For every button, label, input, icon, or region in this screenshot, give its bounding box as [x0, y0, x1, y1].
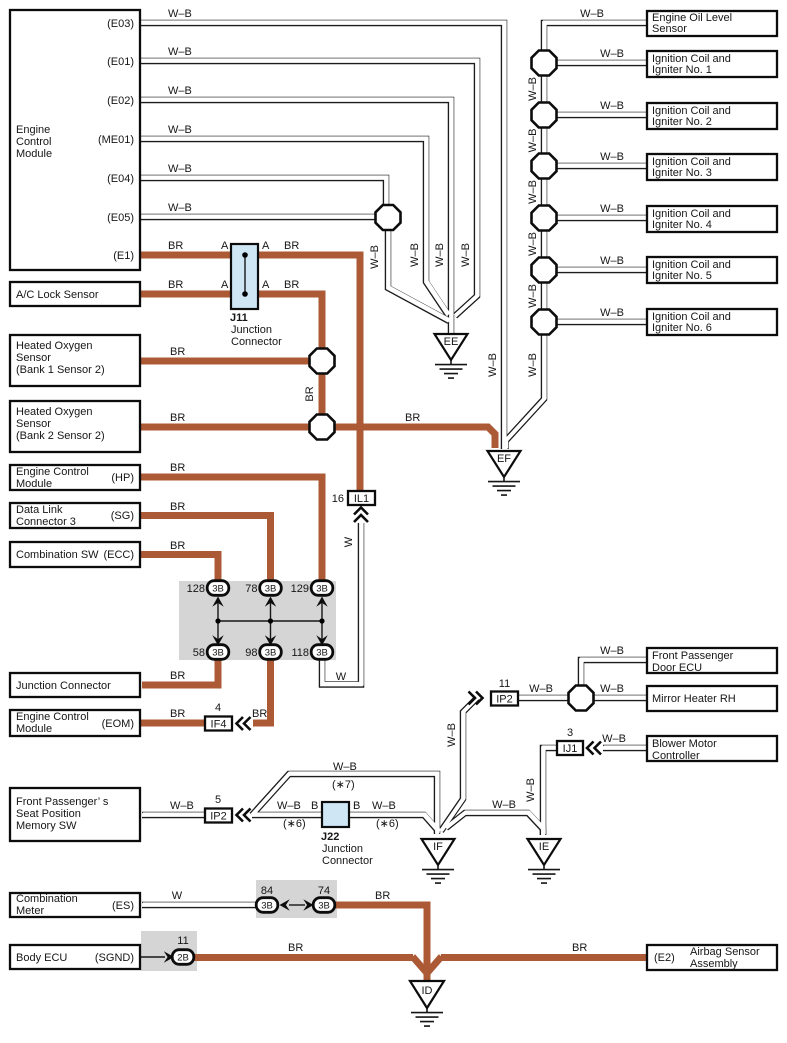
connector octagon oxygen bank1 [310, 349, 335, 374]
wire BR octagon to octagon link [319, 361, 326, 427]
svg-text:Seat Position: Seat Position [16, 808, 81, 820]
splice oval 74/3B [313, 898, 335, 913]
component box engine control module HP [10, 465, 140, 490]
svg-text:(E01): (E01) [107, 56, 134, 68]
shade box splice 2B [141, 931, 197, 971]
svg-text:BR: BR [288, 942, 303, 954]
svg-text:W–B: W–B [527, 284, 539, 308]
splice oval 84/3B [256, 898, 278, 913]
svg-text:W–B: W–B [600, 645, 624, 657]
svg-text:BR: BR [168, 240, 183, 252]
component box data link connector 3 [10, 503, 140, 528]
svg-text:3B: 3B [265, 648, 277, 659]
component box front passenger seat position memory SW [10, 788, 140, 841]
connector octagon chain no.6 [532, 310, 557, 335]
svg-text:W–B: W–B [600, 151, 624, 163]
svg-text:IJ1: IJ1 [563, 743, 578, 755]
svg-text:Control: Control [16, 136, 51, 148]
junction connector J22 [322, 802, 349, 827]
chevrons below IL1 [354, 508, 368, 523]
svg-text:W–B: W–B [527, 129, 539, 153]
svg-text:Igniter No. 5: Igniter No. 5 [652, 270, 712, 282]
svg-text:Memory SW: Memory SW [16, 820, 77, 832]
svg-text:BR: BR [170, 501, 185, 513]
svg-text:78: 78 [245, 583, 257, 595]
svg-text:(E03): (E03) [107, 18, 134, 30]
svg-text:Meter: Meter [16, 905, 44, 917]
component box combination meter [10, 893, 140, 917]
svg-text:ID: ID [422, 985, 433, 997]
svg-text:W–B: W–B [525, 778, 537, 802]
svg-text:W–B: W–B [600, 307, 624, 319]
connector octagon chain no.5 [532, 258, 557, 283]
svg-text:(∗7): (∗7) [332, 779, 355, 791]
connector octagon E04/E05 [376, 205, 401, 230]
svg-text:BR: BR [170, 708, 185, 720]
svg-text:Connector: Connector [322, 855, 373, 867]
body ECU feed arrow [140, 956, 165, 958]
component box ignition coil no.5 [647, 257, 777, 283]
svg-text:16: 16 [332, 493, 344, 505]
svg-text:W–B: W–B [168, 202, 192, 214]
svg-text:(Bank 2 Sensor 2): (Bank 2 Sensor 2) [16, 430, 105, 442]
svg-text:(E1): (E1) [113, 250, 134, 262]
svg-text:W–B: W–B [487, 353, 499, 377]
svg-text:84: 84 [261, 885, 273, 897]
svg-text:(Bank 1 Sensor 2): (Bank 1 Sensor 2) [16, 364, 105, 376]
connector octagon door ECU / mirror heater [569, 686, 594, 711]
svg-text:EE: EE [444, 336, 459, 348]
svg-text:W–B: W–B [529, 683, 553, 695]
wire BR heated oxygen sensor bank1 to octagon [140, 358, 322, 365]
svg-text:W–B: W–B [369, 245, 381, 269]
svg-text:BR: BR [375, 890, 390, 902]
svg-text:W–B: W–B [168, 124, 192, 136]
svg-text:W–B: W–B [527, 353, 539, 377]
svg-text:W–B: W–B [168, 163, 192, 175]
svg-text:J11: J11 [230, 312, 248, 324]
svg-text:74: 74 [318, 885, 330, 897]
svg-text:58: 58 [193, 647, 205, 659]
svg-text:A: A [262, 240, 270, 252]
svg-text:BR: BR [170, 670, 185, 682]
svg-text:BR: BR [170, 412, 185, 424]
splice bus line with arrows [212, 597, 327, 646]
component box blower motor controller [647, 736, 777, 761]
component box engine control module [10, 10, 140, 270]
svg-text:W–B: W–B [600, 255, 624, 267]
svg-text:3B: 3B [212, 648, 224, 659]
ground EE [435, 334, 468, 378]
svg-text:IP2: IP2 [210, 811, 227, 823]
connector box IP2 pin 11 [491, 692, 518, 706]
svg-text:Assembly: Assembly [690, 958, 738, 970]
svg-text:A: A [221, 240, 229, 252]
svg-text:W–B: W–B [170, 800, 194, 812]
svg-text:(ME01): (ME01) [98, 134, 134, 146]
svg-text:Sensor: Sensor [16, 418, 51, 430]
svg-text:(E02): (E02) [107, 95, 134, 107]
component box front passenger door ECU [647, 648, 777, 673]
svg-text:W: W [172, 890, 183, 902]
svg-text:Connector: Connector [231, 336, 282, 348]
svg-text:(HP): (HP) [111, 472, 134, 484]
svg-text:W–B: W–B [602, 733, 626, 745]
svg-text:Engine Control: Engine Control [16, 466, 89, 478]
svg-text:IF4: IF4 [211, 719, 227, 731]
connector octagon chain no.4 [532, 206, 557, 231]
svg-text:W–B: W–B [492, 799, 516, 811]
ground IF [422, 839, 455, 883]
svg-text:5: 5 [215, 794, 221, 806]
svg-text:(ECC): (ECC) [103, 549, 134, 561]
svg-text:3B: 3B [265, 584, 277, 595]
svg-text:W–B: W–B [460, 243, 472, 267]
svg-text:Combination SW: Combination SW [16, 549, 99, 561]
svg-text:BR: BR [284, 240, 299, 252]
splice 84/74 arrows [280, 899, 314, 910]
wire BR (SG) to splice 78 [140, 516, 271, 583]
svg-text:3B: 3B [261, 901, 273, 912]
wire BR Y-junction into ID ground [413, 957, 442, 973]
wire BR IF4 chevron to splice 98 [253, 658, 271, 723]
svg-text:W–B: W–B [409, 243, 421, 267]
svg-text:BR: BR [170, 462, 185, 474]
connector octagon oxygen bank2 [310, 415, 335, 440]
svg-text:Module: Module [16, 478, 52, 490]
connector box IL1 pin 16 [348, 491, 375, 505]
svg-text:A: A [221, 279, 229, 291]
component box heated oxygen sensor bank1 [10, 335, 140, 386]
splice oval 118/3B [311, 645, 333, 660]
svg-text:(E2): (E2) [654, 952, 675, 964]
svg-text:(∗6): (∗6) [283, 818, 306, 830]
chevrons right of IP2 [237, 809, 251, 822]
svg-text:Controller: Controller [652, 750, 700, 762]
svg-text:Mirror Heater RH: Mirror Heater RH [652, 693, 736, 705]
svg-text:3B: 3B [318, 901, 330, 912]
svg-text:Heated Oxygen: Heated Oxygen [16, 340, 92, 352]
splice oval 129/3B [311, 581, 333, 596]
svg-text:Igniter No. 3: Igniter No. 3 [652, 167, 712, 179]
ground EF [488, 451, 521, 495]
svg-text:Engine Control: Engine Control [16, 711, 89, 723]
svg-text:A: A [262, 279, 270, 291]
svg-text:3B: 3B [316, 584, 328, 595]
component box combination SW [10, 542, 140, 567]
svg-text:Sensor: Sensor [652, 23, 687, 35]
svg-text:(E05): (E05) [107, 212, 134, 224]
svg-text:W–B: W–B [527, 77, 539, 101]
wire BR splice 2B to airbag sensor (E2) [191, 954, 413, 961]
component box body ECU [10, 945, 140, 969]
svg-text:EF: EF [497, 453, 511, 465]
svg-text:3: 3 [567, 727, 573, 739]
svg-text:W–B: W–B [527, 180, 539, 204]
svg-text:Junction: Junction [231, 324, 272, 336]
svg-text:W: W [343, 536, 355, 547]
component box ignition coil no.3 [647, 154, 777, 180]
component box ignition coil no.6 [647, 309, 777, 335]
component box ignition coil no.2 [647, 103, 777, 129]
svg-text:Door ECU: Door ECU [652, 662, 702, 674]
svg-text:(SGND): (SGND) [95, 952, 134, 964]
junction connector J11 [231, 244, 258, 309]
svg-text:3B: 3B [212, 584, 224, 595]
svg-text:Igniter No. 1: Igniter No. 1 [652, 64, 712, 76]
splice oval 58/3B [207, 645, 229, 660]
svg-text:A/C Lock Sensor: A/C Lock Sensor [16, 289, 99, 301]
svg-text:Heated Oxygen: Heated Oxygen [16, 406, 92, 418]
component box engine oil level sensor [647, 11, 777, 36]
svg-text:BR: BR [170, 540, 185, 552]
wire BR heated oxygen bank2 row to EF ground [140, 427, 495, 448]
splice oval 98/3B [260, 645, 282, 660]
svg-text:(E04): (E04) [107, 173, 134, 185]
svg-text:B: B [311, 800, 318, 812]
svg-text:W–B: W–B [333, 761, 357, 773]
svg-text:W–B: W–B [168, 46, 192, 58]
component box airbag sensor assembly [647, 945, 777, 970]
svg-text:BR: BR [170, 346, 185, 358]
svg-text:W–B: W–B [372, 800, 396, 812]
svg-text:W–B: W–B [168, 85, 192, 97]
svg-text:3B: 3B [316, 648, 328, 659]
svg-text:BR: BR [572, 942, 587, 954]
svg-text:BR: BR [284, 279, 299, 291]
svg-text:BR: BR [405, 412, 420, 424]
svg-text:Front Passenger: Front Passenger [652, 650, 734, 662]
component box ignition coil no.1 [647, 51, 777, 77]
svg-text:W–B: W–B [446, 723, 458, 747]
chevrons left of IP2 pin 11 [469, 692, 483, 705]
svg-text:W–B: W–B [600, 203, 624, 215]
splice oval 78/3B [260, 581, 282, 596]
svg-text:Combination: Combination [16, 893, 78, 905]
ground ID [410, 981, 444, 1026]
component box A/C lock sensor [10, 282, 140, 306]
svg-text:IL1: IL1 [354, 493, 369, 505]
svg-text:Junction Connector: Junction Connector [16, 680, 111, 692]
connector box IF4 pin 4 [205, 717, 232, 731]
svg-text:BR: BR [304, 386, 316, 401]
svg-text:(EOM): (EOM) [102, 718, 134, 730]
svg-text:11: 11 [499, 678, 510, 690]
connector octagon chain no.1 [532, 51, 557, 76]
svg-text:W–B: W–B [527, 232, 539, 256]
svg-text:BR: BR [168, 279, 183, 291]
svg-text:W–B: W–B [600, 100, 624, 112]
svg-text:(ES): (ES) [112, 900, 134, 912]
wire BR (ECC) to splice 128 [140, 555, 218, 583]
svg-text:Blower Motor: Blower Motor [652, 738, 717, 750]
connector octagon chain no.2 [532, 103, 557, 128]
chevrons right of IJ1 [587, 742, 601, 755]
svg-text:11: 11 [177, 935, 188, 947]
component box heated oxygen sensor bank2 [10, 401, 140, 452]
svg-text:Igniter No. 4: Igniter No. 4 [652, 219, 712, 231]
shade box splice 84/74 [256, 880, 337, 918]
shade box splice group 3B [179, 581, 336, 660]
svg-text:Module: Module [16, 148, 52, 160]
svg-text:IF: IF [433, 841, 443, 853]
svg-text:Body ECU: Body ECU [16, 952, 67, 964]
connector box IP2 pin 5 [205, 809, 232, 823]
chevrons right of IF4 [237, 717, 251, 730]
svg-text:(∗6): (∗6) [376, 818, 399, 830]
wire BR (EOM) to IF4 [140, 720, 205, 727]
svg-text:W–B: W–B [434, 243, 446, 267]
wire BR splice 74 to ID ground [331, 905, 427, 982]
svg-text:W–B: W–B [277, 800, 301, 812]
svg-text:Igniter No. 2: Igniter No. 2 [652, 116, 712, 128]
wire BR (HP) to splice 129 [140, 477, 322, 582]
svg-text:W: W [336, 671, 347, 683]
svg-text:W–B: W–B [600, 48, 624, 60]
component box mirror heater RH [647, 686, 777, 711]
svg-text:BR: BR [252, 708, 267, 720]
svg-text:2B: 2B [177, 953, 189, 964]
svg-text:W–B: W–B [168, 8, 192, 20]
svg-text:Airbag Sensor: Airbag Sensor [690, 946, 760, 958]
splice oval 2B [172, 950, 194, 965]
svg-text:J22: J22 [321, 831, 339, 843]
svg-text:118: 118 [291, 647, 309, 659]
svg-text:(SG): (SG) [111, 510, 134, 522]
svg-text:Junction: Junction [322, 843, 363, 855]
svg-text:IE: IE [539, 841, 549, 853]
svg-text:Front Passenger’ s: Front Passenger’ s [16, 796, 109, 808]
svg-text:98: 98 [245, 647, 257, 659]
ground IE [528, 839, 561, 883]
connector box IJ1 pin 3 [557, 741, 583, 755]
connector octagon chain no.3 [532, 154, 557, 179]
component box ignition coil no.4 [647, 206, 777, 232]
svg-text:129: 129 [291, 583, 309, 595]
wire BR (E1) through J11 down to IL1 [140, 255, 360, 492]
svg-text:Engine: Engine [16, 124, 50, 136]
splice oval 128/3B [207, 581, 229, 596]
svg-text:4: 4 [215, 702, 221, 714]
svg-text:Sensor: Sensor [16, 352, 51, 364]
svg-text:IP2: IP2 [496, 694, 513, 706]
component box engine control module EOM [10, 710, 140, 736]
svg-text:W–B: W–B [580, 8, 604, 20]
wire BR splice 58 to junction connector [142, 658, 218, 685]
svg-text:Connector 3: Connector 3 [16, 516, 76, 528]
svg-text:Data Link: Data Link [16, 504, 63, 516]
wire BR A/C lock sensor through J11 down to octagon [140, 294, 322, 361]
component box junction connector [10, 673, 140, 697]
svg-text:Module: Module [16, 723, 52, 735]
svg-text:B: B [353, 800, 360, 812]
svg-text:128: 128 [187, 583, 205, 595]
svg-text:W–B: W–B [600, 683, 624, 695]
svg-text:Igniter No. 6: Igniter No. 6 [652, 322, 712, 334]
